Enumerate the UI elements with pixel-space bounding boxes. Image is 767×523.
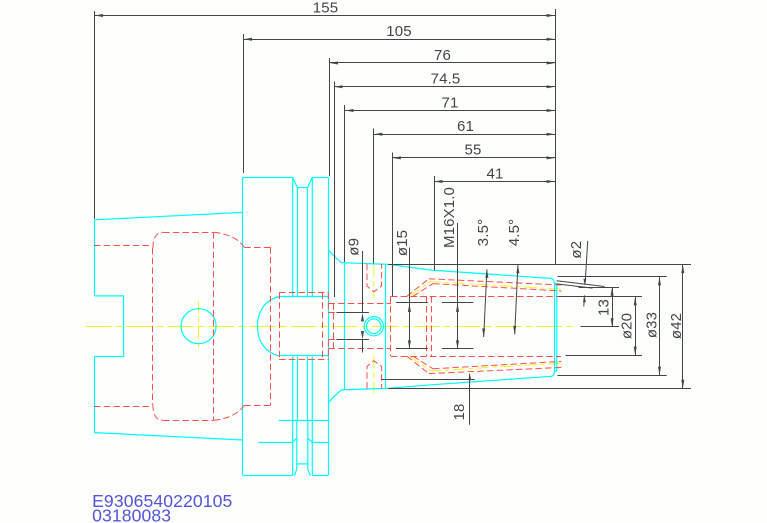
svg-text:71: 71: [442, 94, 459, 111]
main centerline: [86, 326, 573, 328]
v-groove silhouette line 2: [296, 188, 299, 469]
pilot bore 9 bottom line: [328, 339, 368, 341]
extension line 61 left: [373, 129, 375, 264]
extension line 55 left: [392, 153, 394, 297]
nose tip chamfer edge: [554, 282, 556, 372]
angle dimension 4.5: [506, 219, 523, 335]
shank hole vertical centerline: [198, 302, 200, 352]
tube bore top: [279, 292, 328, 294]
neck cross hole inner circle: [367, 319, 382, 334]
extension lines diameter 20: [559, 296, 643, 298]
dimension 155: [95, 0, 556, 17]
svg-text:4.5°: 4.5°: [506, 219, 523, 246]
svg-text:03180083: 03180083: [92, 505, 171, 523]
upper coolant channel centerline: [410, 282, 566, 297]
orientation slot bottom: [293, 438, 313, 476]
v-groove silhouette line 1: [292, 177, 294, 475]
bore 20 start wall: [390, 296, 392, 356]
dimension diameter 33: [644, 277, 662, 375]
tube bore end wall: [322, 293, 324, 360]
extension line 76 left: [329, 58, 331, 176]
svg-text:ø20: ø20: [619, 313, 636, 339]
dimension 71: [345, 94, 555, 112]
extension lines diameter 42: [388, 264, 691, 266]
shank left face upper: [94, 220, 96, 296]
shank side hole circle: [181, 309, 216, 344]
pilot bore 9 top line: [328, 312, 368, 314]
flange bottom edge right: [312, 475, 328, 477]
svg-text:76: 76: [434, 47, 451, 64]
bore 20 top line: [391, 296, 561, 298]
shank cavity mid wall: [213, 232, 215, 420]
dimension diameter 2: [568, 241, 588, 307]
dimension diameter 20: [619, 297, 637, 355]
taper bore top line: [94, 245, 152, 247]
flange bottom edge left: [243, 475, 293, 477]
bore step at flange face: [327, 293, 329, 360]
dimension 18: [451, 374, 471, 425]
coolant tube dome arc: [258, 297, 280, 356]
shank top taper edge: [95, 212, 243, 219]
svg-text:ø15: ø15: [394, 230, 411, 256]
shank cavity dome arcs: [214, 232, 245, 420]
svg-text:74.5: 74.5: [431, 71, 461, 88]
flange top edge right: [312, 177, 328, 179]
extension line 71 left: [344, 105, 346, 262]
svg-text:ø9: ø9: [346, 238, 363, 256]
extension line 41 left: [434, 176, 436, 270]
orientation slot corner arc: [258, 442, 260, 444]
common right extension line: [555, 9, 557, 265]
svg-text:3.5°: 3.5°: [475, 219, 492, 246]
svg-text:155: 155: [313, 0, 338, 16]
extension line 105 left: [243, 34, 245, 173]
shank left notch: [95, 296, 124, 357]
v-groove silhouette line 4: [311, 177, 313, 475]
nose tip face: [554, 282, 557, 372]
cavity bore end wall: [270, 247, 272, 405]
thread bore bottom line: [328, 348, 391, 350]
shank cavity top line: [163, 232, 214, 234]
orientation slot ledge: [259, 442, 329, 444]
dimension 55: [392, 142, 555, 160]
dimension diameter 15: [394, 230, 428, 349]
nose taper top edge: [388, 264, 554, 282]
dimension diameter 9: [337, 238, 369, 353]
nose coolant hole extension lines: [557, 281, 605, 287]
taper bore bottom line: [94, 406, 152, 408]
bore 20 bottom line: [391, 356, 561, 358]
dimension 41: [434, 165, 555, 183]
neck fillet bottom: [328, 390, 341, 403]
svg-text:M16X1.0: M16X1.0: [441, 187, 458, 248]
top cross hole: [367, 264, 382, 292]
v-groove bottom: [298, 187, 308, 189]
svg-text:13: 13: [596, 299, 613, 316]
dimension 13: [596, 287, 614, 326]
body bottom edge: [342, 388, 389, 390]
cavity bore bottom: [244, 405, 270, 407]
thread bore top line: [328, 303, 391, 305]
upper coolant channel shallow lines: [429, 279, 562, 291]
shank bottom taper edge: [95, 433, 243, 440]
svg-text:105: 105: [386, 23, 411, 40]
svg-text:55: 55: [465, 142, 482, 159]
body right edge line: [385, 264, 387, 388]
dimension 76: [330, 47, 556, 65]
v-groove right flank: [308, 177, 313, 188]
extension line 74.5 left: [334, 82, 336, 298]
extension line 155 left: [94, 11, 96, 219]
extension lines 13: [579, 287, 620, 289]
flange left face: [242, 177, 244, 475]
coolant tube bottom line: [279, 355, 328, 357]
svg-text:41: 41: [487, 165, 504, 182]
coolant tube top line: [279, 296, 328, 298]
svg-text:ø42: ø42: [668, 313, 685, 339]
shank cavity left wall: [152, 248, 154, 405]
dimension 61: [374, 118, 555, 136]
extension line 18: [381, 379, 474, 381]
svg-text:ø33: ø33: [644, 312, 661, 338]
flange right face: [328, 178, 330, 476]
extension lines diameter 33: [558, 276, 667, 278]
dimension diameter 42: [668, 265, 685, 389]
angle dimension 3.5: [475, 219, 492, 337]
dimension 105: [244, 23, 556, 41]
svg-text:ø2: ø2: [568, 241, 585, 259]
svg-text:18: 18: [451, 404, 468, 421]
flange top edge left: [243, 177, 293, 179]
neck fillet top: [328, 250, 341, 263]
shank cavity bottom line: [163, 420, 214, 422]
tube bore bottom: [279, 359, 328, 361]
cavity bore top: [244, 247, 270, 249]
shank cavity corner arcs: [153, 232, 163, 420]
orientation slot floor line: [279, 420, 329, 422]
v-groove silhouette line 3: [307, 188, 309, 469]
bottom cross hole: [367, 361, 382, 389]
svg-text:61: 61: [457, 118, 474, 135]
body top edge: [342, 263, 389, 265]
body left edge line: [344, 263, 346, 390]
cross-hole vertical centerline: [373, 264, 375, 394]
dimension M16X1.0: [441, 187, 473, 349]
shank left face lower: [94, 357, 96, 433]
thread start wall: [333, 303, 335, 349]
thread end wall 1: [426, 296, 428, 356]
lower coolant channel steep lines: [407, 356, 433, 374]
tube bore step wall: [279, 293, 281, 360]
upper coolant channel steep lines: [407, 279, 433, 297]
v-groove left flank: [293, 177, 298, 188]
nose taper bottom edge: [388, 373, 554, 389]
lower coolant channel shallow lines: [429, 361, 562, 373]
neck cross hole outer circle: [364, 317, 383, 336]
thread end wall 2: [431, 296, 433, 356]
lower coolant channel centerline: [410, 356, 566, 371]
dimension 74.5: [334, 71, 555, 89]
